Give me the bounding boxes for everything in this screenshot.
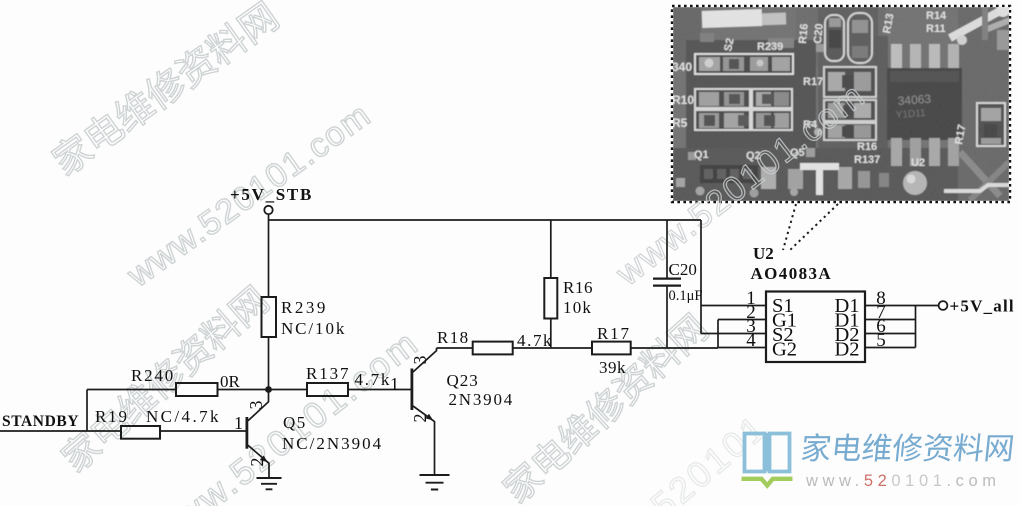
logo book icon [745, 433, 790, 472]
PCB photo (inset, dotted border) [672, 3, 1012, 202]
wire pin2 G1 [718, 319, 766, 321]
photo: middle tall capacitors [825, 15, 844, 61]
logo book base (green) [742, 479, 793, 486]
schematic text labels [2, 185, 1015, 467]
wire pin8 D1 [865, 305, 938, 307]
svg-text:5: 5 [876, 330, 886, 351]
transistor Q5 [245, 417, 248, 449]
resistor R239 [262, 297, 277, 337]
svg-text:4.7k: 4.7k [355, 370, 392, 389]
svg-text:家电维修资料网: 家电维修资料网 [46, 0, 287, 184]
watermark line 1 (top-left 家电维修资料网) [46, 0, 775, 506]
wire R137 left [269, 389, 308, 391]
svg-text:NC/4.7k: NC/4.7k [146, 407, 221, 426]
wire R240 left vertical [86, 390, 88, 432]
svg-text:520101: 520101 [643, 406, 775, 506]
wire pin7 D1 [865, 319, 916, 321]
wire S bus vertical [700, 220, 702, 334]
svg-text:Q23: Q23 [447, 371, 479, 390]
photo: silkscreen labels [672, 10, 968, 169]
resistor R16 [544, 278, 557, 319]
svg-text:G2: G2 [772, 339, 797, 361]
wire D bus vertical [915, 306, 917, 348]
resistor R18 [473, 342, 513, 355]
svg-text:2: 2 [247, 458, 267, 467]
svg-text:R239: R239 [281, 298, 328, 317]
resistor R19 [121, 426, 160, 439]
svg-text:+5V_all: +5V_all [950, 297, 1015, 316]
wire R16 branch top [550, 220, 552, 278]
wire pin6 D2 [865, 333, 916, 335]
svg-text:AO4083A: AO4083A [751, 264, 833, 283]
dotted pointer line left [783, 204, 796, 250]
svg-text:C20: C20 [669, 260, 697, 279]
wire R137 to Q23 base [348, 389, 411, 391]
svg-text:2: 2 [410, 414, 430, 423]
wire pin1 S1 [701, 305, 766, 307]
resistor R240 [176, 383, 218, 396]
svg-text:R16: R16 [563, 278, 593, 297]
wire R239 top [268, 220, 270, 297]
net +5V_all terminal [939, 301, 948, 310]
photo: bright T trace [800, 163, 839, 170]
photo: top right bright trace [950, 11, 1000, 38]
wire R240 right [218, 389, 269, 391]
wire R240 left [87, 389, 176, 391]
svg-text:0.1μF: 0.1μF [669, 288, 703, 304]
svg-text:R17: R17 [597, 324, 631, 343]
photo: bottom right traces [960, 152, 1000, 196]
svg-text:NC/10k: NC/10k [281, 319, 346, 338]
photo: via circle near U2 [903, 171, 927, 195]
photo: resistor grid rows [695, 89, 750, 108]
op-amp U2 box [766, 292, 865, 363]
wire Q23 collector to R18 [437, 347, 473, 349]
svg-text:2N3904: 2N3904 [449, 390, 515, 409]
svg-text:4: 4 [746, 330, 756, 351]
svg-text:D2: D2 [834, 339, 859, 361]
svg-text:www.520101.com: www.520101.com [805, 472, 1001, 490]
wire pin5 D2 [865, 347, 916, 349]
wire top rail [269, 219, 702, 221]
wire terminal stub [268, 214, 270, 220]
photo: right edge component [977, 103, 1005, 146]
net +5V_STB terminal [264, 206, 272, 214]
wire G bus vertical [717, 320, 719, 348]
wire pin4 G2 [718, 347, 766, 349]
dotted pointer line right [789, 204, 838, 251]
svg-text:1: 1 [390, 374, 399, 394]
resistor R17 [592, 342, 631, 355]
wire R16 bottom [550, 319, 552, 349]
svg-text:+5V_STB: +5V_STB [230, 185, 313, 204]
wire C20 bottom [666, 286, 668, 348]
capacitor C20 [653, 278, 681, 280]
photo: bottom connector and pads [700, 165, 758, 183]
svg-text:Q5: Q5 [283, 413, 307, 432]
svg-text:U2: U2 [753, 244, 774, 263]
photo: small scattered pads [676, 178, 685, 187]
ground (Q23 emitter) [420, 475, 450, 490]
svg-text:家电维修资料网: 家电维修资料网 [799, 432, 1016, 466]
logo bottom right [742, 432, 1017, 490]
wire R239 bottom [268, 337, 270, 390]
svg-text:R137: R137 [306, 364, 350, 383]
transistor Q23 [410, 369, 413, 411]
wire R18 to R17 [513, 347, 592, 349]
wire R17 to U2 gates [631, 347, 718, 349]
svg-text:10k: 10k [563, 298, 592, 317]
svg-text:4.7k: 4.7k [517, 331, 553, 350]
wire STANDBY input [0, 430, 121, 432]
photo: resistor group R239 row [695, 54, 793, 74]
svg-text:1: 1 [234, 413, 243, 433]
svg-text:R240: R240 [131, 366, 175, 385]
ground (Q5 emitter) [257, 478, 282, 489]
node base junction [265, 386, 272, 393]
svg-text:R19: R19 [95, 407, 129, 426]
wire C20 top [666, 220, 668, 278]
photo: white connector bar [702, 9, 763, 28]
svg-text:39k: 39k [599, 358, 626, 377]
photo: SOIC-8 chip U2 [891, 44, 902, 70]
svg-text:0R: 0R [220, 372, 241, 391]
photo: middle stacked boxes [824, 67, 876, 97]
resistor R137 [307, 383, 348, 396]
svg-text:3: 3 [246, 401, 266, 410]
svg-text:3: 3 [410, 356, 430, 365]
svg-text:NC/2N3904: NC/2N3904 [282, 434, 383, 453]
wire pin3 S2 [701, 333, 766, 335]
svg-text:STANDBY: STANDBY [2, 413, 79, 430]
svg-text:R18: R18 [437, 328, 470, 347]
wire R19 to Q5 base [160, 430, 246, 432]
